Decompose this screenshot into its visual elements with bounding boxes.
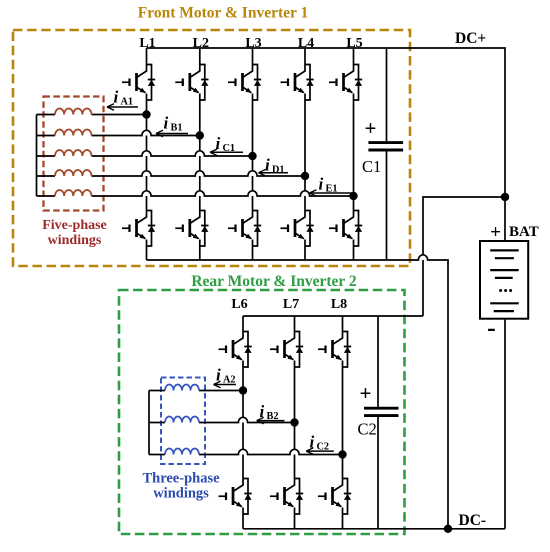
svg-text:E1: E1 xyxy=(326,183,338,194)
wire leg L2 collector (rail to top IGBT) xyxy=(199,48,201,65)
battery cell plates xyxy=(490,250,519,311)
current arrow iA2 xyxy=(214,381,237,387)
label L5 xyxy=(346,36,362,51)
svg-text:i: i xyxy=(310,433,315,452)
node phase B2 xyxy=(290,418,298,426)
svg-text:B2: B2 xyxy=(267,411,279,422)
label C1 + polarity xyxy=(365,116,377,140)
label C2 + polarity xyxy=(360,381,372,405)
node phase E1 xyxy=(349,192,357,200)
transistor L8 upper IGBT with diode xyxy=(318,332,351,368)
wire leg L8 collector (rail to top IGBT) xyxy=(342,316,344,332)
wire leg L6 emitter (bottom IGBT to negative rail) xyxy=(242,514,244,529)
wire leg L4 midpoint (top IGBT to bottom IGBT) xyxy=(304,100,306,211)
label L1 xyxy=(139,36,155,51)
wire leg L1 collector (rail to top IGBT) xyxy=(146,48,148,65)
label Three-phase windings xyxy=(142,471,220,502)
five-phase winding box xyxy=(44,97,104,211)
node phase C1 xyxy=(248,152,256,160)
transistor L4 upper IGBT with diode xyxy=(281,65,314,101)
wire phase E1 line xyxy=(37,191,354,196)
wire leg L1 emitter (bottom IGBT to negative rail) xyxy=(146,246,148,260)
svg-text:L7: L7 xyxy=(283,297,299,312)
wire leg L5 collector (rail to top IGBT) xyxy=(353,48,355,65)
transistor L6 lower IGBT with diode xyxy=(219,479,252,515)
svg-text:i: i xyxy=(216,134,221,153)
wire leg L3 collector (rail to top IGBT) xyxy=(252,48,254,65)
label current iE1 xyxy=(319,175,338,195)
svg-text:C2: C2 xyxy=(317,441,330,452)
svg-text:L6: L6 xyxy=(231,297,247,312)
transistor L3 lower IGBT with diode xyxy=(228,211,261,247)
inductor rear phase B winding xyxy=(165,417,199,423)
svg-text:+: + xyxy=(490,222,501,243)
transistor L5 lower IGBT with diode xyxy=(329,211,362,247)
wire leg L6 collector (rail to top IGBT) xyxy=(242,316,244,332)
svg-text:windings: windings xyxy=(153,486,209,502)
svg-text:Front Motor & Inverter 1: Front Motor & Inverter 1 xyxy=(138,5,308,22)
label DC- xyxy=(459,512,487,529)
transistor L2 upper IGBT with diode xyxy=(175,65,208,101)
wire leg L5 emitter (bottom IGBT to negative rail) xyxy=(353,246,355,260)
inductor rear phase A winding xyxy=(165,385,199,391)
inductor front phase C winding xyxy=(55,150,92,156)
wire leg L7 midpoint (top IGBT to bottom IGBT) xyxy=(294,367,296,479)
wire phase D1 line xyxy=(37,171,306,176)
wire rear DC+ rail xyxy=(243,315,423,317)
wire leg L2 emitter (bottom IGBT to negative rail) xyxy=(199,246,201,260)
wire leg L4 emitter (bottom IGBT to negative rail) xyxy=(304,246,306,260)
wire battery negative to DC- rail xyxy=(504,319,506,529)
svg-text:i: i xyxy=(319,175,324,194)
svg-text:i: i xyxy=(265,156,270,175)
front inverter boundary box xyxy=(13,30,410,266)
label BAT + terminal xyxy=(490,222,501,243)
three-phase winding box xyxy=(161,378,205,465)
svg-text:A2: A2 xyxy=(223,374,236,385)
label Five-phase windings xyxy=(42,218,107,248)
capacitor C1 bottom lead xyxy=(386,151,388,260)
wire leg L7 emitter (bottom IGBT to negative rail) xyxy=(294,514,296,529)
transistor L2 lower IGBT with diode xyxy=(175,211,208,247)
wire leg L8 midpoint (top IGBT to bottom IGBT) xyxy=(342,367,344,479)
node phase A2 xyxy=(239,386,247,394)
svg-text:BAT: BAT xyxy=(509,224,539,240)
label L7 xyxy=(283,297,299,312)
current arrow iC1 xyxy=(210,149,243,155)
wire leg L7 collector (rail to top IGBT) xyxy=(294,316,296,332)
current arrow iA1 xyxy=(107,104,138,110)
svg-text:L5: L5 xyxy=(346,36,362,51)
svg-text:L4: L4 xyxy=(298,36,314,51)
label Rear Motor & Inverter 2 title xyxy=(191,273,357,290)
label DC+ xyxy=(455,30,486,47)
label L4 xyxy=(298,36,314,51)
label BAT xyxy=(509,224,539,240)
svg-text:windings: windings xyxy=(48,233,102,248)
label BAT - terminal xyxy=(487,313,496,342)
inductor rear phase C winding xyxy=(165,449,199,455)
wire front negative rail to DC- rail xyxy=(147,255,449,529)
transistor L4 lower IGBT with diode xyxy=(281,211,314,247)
wire phase A2 line xyxy=(149,390,243,392)
current arrow iD1 xyxy=(259,170,289,176)
svg-text:Three-phase: Three-phase xyxy=(142,471,220,487)
transistor L3 upper IGBT with diode xyxy=(228,65,261,101)
label L3 xyxy=(245,36,261,51)
rear inverter boundary box xyxy=(119,290,405,534)
capacitor C2 top lead xyxy=(377,316,379,407)
battery BAT body xyxy=(480,241,528,319)
node front motor star point bus xyxy=(36,115,38,197)
transistor L7 upper IGBT with diode xyxy=(270,332,303,368)
svg-text:D1: D1 xyxy=(272,164,285,175)
label L8 xyxy=(331,297,347,312)
wire phase A1 line xyxy=(37,114,147,116)
node phase B1 xyxy=(196,131,204,139)
capacitor C2 plates xyxy=(364,408,399,415)
svg-text:A1: A1 xyxy=(121,96,134,107)
svg-text:C2: C2 xyxy=(358,420,377,439)
inductor front phase D winding xyxy=(55,170,92,176)
transistor L1 upper IGBT with diode xyxy=(122,65,155,101)
svg-text:DC+: DC+ xyxy=(455,30,486,47)
svg-text:L8: L8 xyxy=(331,297,347,312)
svg-text:+: + xyxy=(365,116,377,140)
label Front Motor & Inverter 1 title xyxy=(138,5,308,22)
label current iD1 xyxy=(265,156,285,176)
capacitor C1 plates xyxy=(368,143,403,150)
svg-text:B1: B1 xyxy=(171,122,183,133)
wire phase B2 line xyxy=(149,417,295,422)
wire DC+ branch to rear inverter xyxy=(423,197,505,316)
current arrow iB1 xyxy=(156,130,188,136)
capacitor C1 top lead xyxy=(386,48,388,141)
svg-text:L2: L2 xyxy=(193,36,209,51)
wire phase C2 line xyxy=(149,449,343,454)
svg-text:C1: C1 xyxy=(362,157,381,176)
inductor front phase B winding xyxy=(55,130,92,136)
inductor front phase A winding xyxy=(55,109,92,115)
svg-text:Rear Motor & Inverter 2: Rear Motor & Inverter 2 xyxy=(191,273,357,290)
transistor L6 upper IGBT with diode xyxy=(219,332,252,368)
label L2 xyxy=(193,36,209,51)
svg-text:i: i xyxy=(216,366,221,385)
wire DC+ rail (front top rail to battery +) xyxy=(147,48,506,241)
node phase C2 xyxy=(338,450,346,458)
svg-text:-: - xyxy=(487,313,496,342)
wire leg L8 emitter (bottom IGBT to negative rail) xyxy=(342,514,344,529)
wire phase B1 line xyxy=(37,130,200,135)
wire phase C1 line xyxy=(37,151,253,156)
current arrow iB2 xyxy=(257,417,285,423)
svg-text:i: i xyxy=(114,88,119,107)
svg-text:Five-phase: Five-phase xyxy=(42,218,107,233)
node phase D1 xyxy=(301,172,309,180)
label current iB2 xyxy=(260,402,279,422)
wire leg L4 collector (rail to top IGBT) xyxy=(304,48,306,65)
label C1 xyxy=(362,157,381,176)
capacitor C2 bottom lead xyxy=(377,417,379,529)
transistor L8 lower IGBT with diode xyxy=(318,479,351,515)
label current iC1 xyxy=(216,134,236,154)
node DC+ battery junction xyxy=(501,193,509,201)
current arrow iE1 xyxy=(310,190,353,196)
svg-text:+: + xyxy=(360,381,372,405)
wire DC- rail xyxy=(243,528,505,530)
wire hop masks xyxy=(142,130,428,454)
wire leg L3 emitter (bottom IGBT to negative rail) xyxy=(252,246,254,260)
wire leg L5 midpoint (top IGBT to bottom IGBT) xyxy=(353,100,355,211)
label L6 xyxy=(231,297,247,312)
label current iC2 xyxy=(310,433,330,453)
svg-text:DC-: DC- xyxy=(459,512,487,529)
transistor L7 lower IGBT with diode xyxy=(270,479,303,515)
svg-text:i: i xyxy=(164,114,169,133)
inductor front phase E winding xyxy=(55,190,92,196)
label current iA2 xyxy=(216,366,236,386)
label current iA1 xyxy=(114,88,134,108)
label C2 xyxy=(358,420,377,439)
node DC- junction xyxy=(444,525,452,533)
label current iB1 xyxy=(164,114,183,134)
svg-text:L1: L1 xyxy=(139,36,155,51)
current arrow iC2 xyxy=(306,448,334,454)
wire leg L1 midpoint (top IGBT to bottom IGBT) xyxy=(146,100,148,211)
wire leg L2 midpoint (top IGBT to bottom IGBT) xyxy=(199,100,201,211)
wire leg L6 midpoint (top IGBT to bottom IGBT) xyxy=(242,367,244,479)
node phase A1 xyxy=(142,110,150,118)
svg-text:i: i xyxy=(260,402,265,421)
svg-text:L3: L3 xyxy=(245,36,261,51)
svg-text:C1: C1 xyxy=(223,143,236,154)
transistor L1 lower IGBT with diode xyxy=(122,211,155,247)
wire leg L3 midpoint (top IGBT to bottom IGBT) xyxy=(252,100,254,211)
transistor L5 upper IGBT with diode xyxy=(329,65,362,101)
node rear motor star point bus xyxy=(148,391,150,455)
